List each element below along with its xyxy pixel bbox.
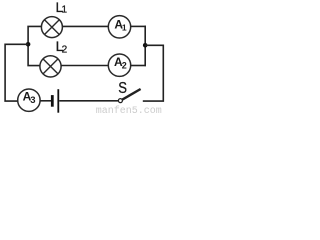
ammeter A3 — [18, 89, 40, 111]
svg-text:3: 3 — [30, 95, 35, 106]
switch S (open): pivot + blade — [118, 89, 140, 103]
node junction left — [26, 42, 31, 47]
svg-text:1: 1 — [122, 23, 127, 33]
wire: right branch vertical — [144, 26, 146, 67]
svg-text:2: 2 — [62, 44, 68, 55]
svg-text:2: 2 — [122, 60, 127, 70]
wire: junction to right outer vertical, down and to switch — [143, 45, 164, 101]
wire: left feed from junction down to A3 — [5, 44, 28, 101]
lamp L2 — [40, 56, 61, 77]
wire: left branch vertical with corners to L1 and L2 — [28, 26, 41, 65]
background — [0, 0, 168, 114]
wire: L2 to A2 — [61, 65, 108, 67]
wire: A1 to right branch vertical — [131, 25, 146, 27]
wire: battery to switch pivot — [59, 100, 118, 102]
lamp L1 — [41, 17, 62, 38]
battery cell: short thick negative plate + long thin positive plate — [51, 89, 59, 113]
svg-text:manfen5.com: manfen5.com — [96, 105, 162, 114]
wire: A2 to right branch vertical — [131, 65, 146, 67]
ammeter A2 — [108, 54, 130, 76]
svg-text:S: S — [118, 80, 127, 97]
node junction right — [143, 43, 148, 48]
svg-text:1: 1 — [62, 5, 68, 16]
wire: L1 to A1 — [62, 25, 108, 27]
wire: A3 to battery — [40, 100, 51, 102]
ammeter A1 — [108, 16, 130, 38]
